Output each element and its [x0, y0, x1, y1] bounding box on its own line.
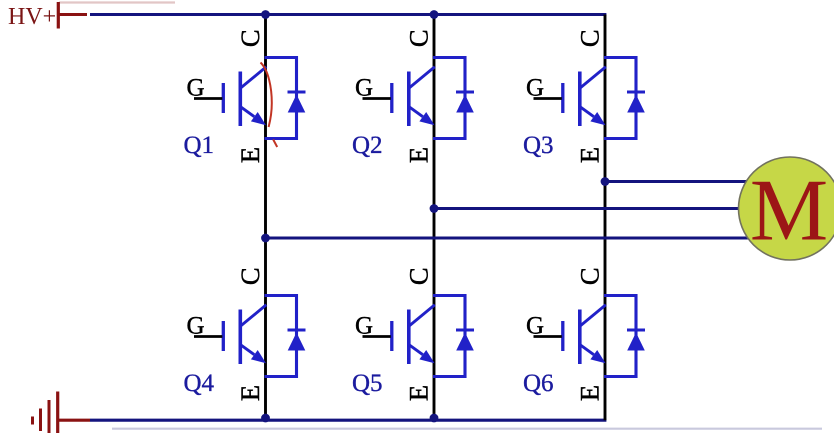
node top rail / leg 2 junction — [430, 10, 439, 19]
diode D4 (antiparallel) — [288, 330, 306, 351]
wire bottom rail return bus — [90, 419, 606, 422]
wire diode bracket of Q2 — [433, 58, 465, 139]
svg-text:G: G — [526, 313, 544, 340]
wire gate lead of Q5 — [363, 335, 391, 338]
svg-text:E: E — [404, 147, 434, 163]
transistor Q3 — [523, 29, 645, 163]
wire collector diagonal of Q4 — [241, 305, 267, 326]
wire phase U output (leg 1 to motor) — [266, 237, 763, 240]
wire emitter diagonal with arrow of Q5 — [409, 345, 434, 363]
wire diode bracket of Q5 — [433, 296, 465, 377]
wire gate lead of Q6 — [534, 335, 562, 338]
svg-text:G: G — [355, 75, 373, 102]
svg-text:G: G — [187, 313, 205, 340]
wire diode bracket of Q6 — [604, 296, 636, 377]
svg-text:Q5: Q5 — [352, 370, 383, 397]
node phase W junction — [601, 177, 610, 186]
gate bar of Q5 — [390, 321, 393, 351]
node bottom rail / leg 2 junction — [430, 414, 439, 423]
gate bar of Q6 — [561, 321, 564, 351]
wire emitter diagonal with arrow of Q3 — [580, 107, 605, 125]
IGBT body bar of Q5 — [407, 310, 411, 365]
svg-text:Q6: Q6 — [523, 370, 554, 397]
svg-text:M: M — [750, 162, 828, 259]
svg-text:E: E — [404, 385, 434, 401]
wire phase leg 1 vertical — [264, 15, 267, 421]
motor M circle — [739, 157, 834, 260]
wire faint cropped line (bottom edge) — [112, 428, 822, 430]
wire gate lead of Q3 — [534, 97, 562, 100]
svg-text:G: G — [187, 75, 205, 102]
transistor Q2 — [352, 29, 474, 163]
svg-text:E: E — [575, 147, 605, 163]
wire emitter diagonal with arrow of Q1 — [241, 107, 266, 125]
diode D6 (antiparallel) — [627, 330, 645, 351]
diode D1 (antiparallel) — [288, 92, 306, 113]
wire faint cropped line remnant (top-left edge) — [59, 1, 175, 3]
gate bar of Q3 — [561, 83, 564, 113]
svg-text:Q2: Q2 — [352, 132, 383, 159]
transistor Q1 — [184, 29, 306, 163]
node bottom rail / leg 1 junction — [261, 414, 270, 423]
svg-text:C: C — [235, 29, 265, 47]
wire phase leg 3 vertical — [604, 15, 607, 421]
red annotation tick below Q1 — [273, 140, 277, 148]
wire gate lead of Q4 — [194, 335, 222, 338]
transistor Q6 — [523, 267, 645, 401]
node phase U junction — [261, 234, 270, 243]
svg-text:E: E — [575, 385, 605, 401]
svg-text:C: C — [235, 267, 265, 285]
HV+ terminal tick — [57, 2, 60, 29]
wire emitter diagonal with arrow of Q2 — [409, 107, 434, 125]
wire gate lead of Q1 — [194, 97, 222, 100]
IGBT body bar of Q2 — [407, 72, 411, 127]
wire phase V output (leg 2 to motor) — [434, 207, 762, 210]
svg-text:Q4: Q4 — [184, 370, 215, 397]
svg-text:Q1: Q1 — [184, 132, 215, 159]
transistor Q4 — [184, 267, 306, 401]
IGBT body bar of Q3 — [578, 72, 582, 127]
diode D5 (antiparallel) — [456, 330, 474, 351]
svg-text:E: E — [235, 385, 265, 401]
wire collector diagonal of Q2 — [409, 67, 435, 88]
wire diode bracket of Q3 — [604, 58, 636, 139]
wire gate lead of Q2 — [363, 97, 391, 100]
node phase V junction — [430, 204, 439, 213]
diode D2 (antiparallel) — [456, 92, 474, 113]
wire diode bracket of Q4 — [265, 296, 297, 377]
wire phase leg 2 vertical — [433, 15, 436, 421]
svg-text:Q3: Q3 — [523, 132, 554, 159]
svg-text:G: G — [526, 75, 544, 102]
gate bar of Q4 — [222, 321, 225, 351]
IGBT body bar of Q6 — [578, 310, 582, 365]
gate bar of Q1 — [222, 83, 225, 113]
wire top rail red segment — [58, 13, 87, 16]
wire collector diagonal of Q5 — [409, 305, 435, 326]
wire diode bracket of Q1 — [265, 58, 297, 139]
svg-text:C: C — [404, 267, 434, 285]
wire emitter diagonal with arrow of Q4 — [241, 345, 266, 363]
diode D3 (antiparallel) — [627, 92, 645, 113]
wire collector diagonal of Q1 — [241, 67, 267, 88]
wire collector diagonal of Q3 — [580, 67, 606, 88]
node top rail / leg 1 junction — [261, 10, 270, 19]
svg-text:E: E — [235, 147, 265, 163]
IGBT body bar of Q4 — [239, 310, 243, 365]
IGBT body bar of Q1 — [239, 72, 243, 127]
wire collector diagonal of Q6 — [580, 305, 606, 326]
svg-text:G: G — [355, 313, 373, 340]
wire phase W output (leg 3 to motor) — [605, 180, 762, 183]
wire emitter diagonal with arrow of Q6 — [580, 345, 605, 363]
svg-text:C: C — [575, 29, 605, 47]
svg-text:HV+: HV+ — [8, 4, 56, 30]
ground symbol — [33, 392, 58, 433]
svg-text:C: C — [575, 267, 605, 285]
red annotation arc on Q1 — [261, 63, 272, 128]
transistor Q5 — [352, 267, 474, 401]
svg-text:C: C — [404, 29, 434, 47]
wire top rail HV+ bus — [90, 13, 606, 16]
gate bar of Q2 — [390, 83, 393, 113]
wire bottom rail red segment — [58, 419, 90, 422]
